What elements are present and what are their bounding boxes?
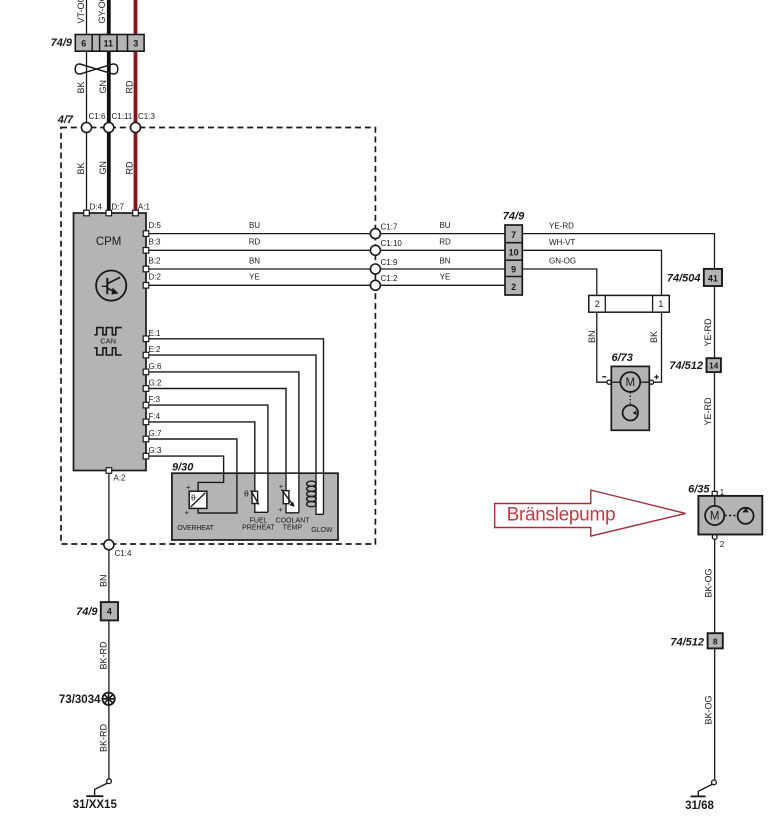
svg-text:COOLANT: COOLANT [276, 517, 311, 524]
svg-text:73/3034: 73/3034 [59, 694, 101, 706]
wire BU from CPM D:5 to C1:7 to 74/9 pin 7 [149, 221, 506, 234]
wire G:7 overheat return [149, 429, 237, 513]
svg-text:BN: BN [249, 256, 260, 265]
svg-text:31/68: 31/68 [685, 800, 714, 812]
svg-text:RD: RD [125, 80, 135, 93]
svg-text:θ: θ [191, 493, 196, 503]
svg-text:BU: BU [249, 221, 260, 230]
svg-text:2: 2 [511, 282, 516, 292]
svg-text:GN-OG: GN-OG [549, 257, 576, 266]
svg-text:C1:11: C1:11 [112, 112, 133, 121]
pin G:6 [143, 369, 149, 375]
pin E:1 [143, 336, 149, 342]
svg-text:BK-RD: BK-RD [99, 641, 109, 670]
svg-text:PREHEAT: PREHEAT [242, 525, 275, 532]
svg-text:C1:2: C1:2 [381, 274, 398, 283]
svg-text:BK: BK [649, 331, 659, 343]
svg-text:2: 2 [720, 540, 725, 549]
svg-text:C1:4: C1:4 [115, 549, 132, 558]
svg-text:YE: YE [440, 273, 451, 282]
svg-text:GN: GN [98, 80, 108, 94]
svg-text:M: M [710, 511, 720, 523]
connector node C1:3 [131, 112, 156, 133]
svg-text:D:2: D:2 [149, 273, 162, 282]
red arrow Bränslepump pointing to 6/35 [495, 490, 686, 536]
wire E:1 to glow return [149, 329, 324, 515]
wire RD from CPM B:3 to C1:10 to 74/9 pin 10 [149, 238, 506, 251]
connector 74/9 strip pins 7 10 9 2 [503, 211, 525, 296]
svg-text:6/35: 6/35 [688, 483, 710, 495]
fuel preheat sensor [242, 488, 275, 531]
svg-text:OVERHEAT: OVERHEAT [177, 525, 214, 532]
svg-text:74/9: 74/9 [51, 37, 73, 49]
svg-text:BN: BN [439, 256, 450, 265]
connector node C1:2 [370, 274, 398, 290]
svg-text:74/9: 74/9 [503, 211, 525, 223]
pin G:2 [143, 386, 149, 392]
wire BK to 6/73 plus [649, 312, 662, 382]
svg-text:BK-OG: BK-OG [703, 568, 713, 597]
connector 74/512 pin 14 [669, 358, 721, 372]
pin B:2 [143, 266, 149, 272]
svg-text:C1:3: C1:3 [138, 112, 155, 121]
svg-text:D:7: D:7 [112, 203, 125, 212]
wire BN from CPM B:2 to C1:9 to 74/9 pin 9 [149, 256, 506, 269]
svg-text:FUEL: FUEL [250, 517, 268, 524]
svg-text:C1:6: C1:6 [89, 112, 106, 121]
svg-text:BK-OG: BK-OG [703, 695, 713, 724]
svg-text:74/512: 74/512 [670, 636, 704, 648]
fuel pump 6/35 [688, 483, 762, 549]
svg-text:D:5: D:5 [149, 221, 162, 230]
svg-text:BU: BU [439, 221, 450, 230]
wire BN from C1:4 to 74/9 pin 4 [99, 550, 109, 602]
wire GN (GY-OG feed, wire 2 vertical thick) [97, 0, 109, 213]
svg-text:4/7: 4/7 [57, 114, 74, 126]
connector 74/512 pin 8 [670, 633, 722, 648]
twisted pair symbol [75, 64, 118, 74]
white channel coolant temp [285, 474, 299, 513]
svg-text:6/73: 6/73 [612, 352, 633, 364]
svg-text:CPM: CPM [96, 236, 122, 248]
wire F:4 to fuel preheat sensor [149, 412, 268, 512]
coolant temp sensor [276, 482, 311, 532]
svg-text:C1:7: C1:7 [381, 223, 398, 232]
wire BK (VT-OG feed, wire 1 vertical) [76, 0, 87, 213]
ECU 4/7 dashed boundary [57, 114, 376, 544]
svg-text:GN: GN [98, 161, 108, 175]
pin D:2 [143, 283, 149, 289]
svg-text:YE-RD: YE-RD [703, 397, 713, 426]
wire BK-RD from pin 4 to splice [99, 620, 109, 779]
wire E:2 to glow coil [149, 345, 324, 514]
svg-text:BK: BK [76, 162, 86, 174]
wire WH-VT from 74/9 pin 10 to connector pin 1 [522, 238, 661, 295]
white channel fuel preheat [254, 474, 268, 512]
svg-text:14: 14 [709, 360, 719, 370]
pin A:1 [133, 203, 151, 216]
svg-text:3: 3 [133, 39, 138, 49]
pin G:7 [143, 436, 149, 442]
svg-text:+: + [185, 508, 190, 517]
svg-text:4: 4 [107, 607, 112, 617]
svg-text:F:4: F:4 [149, 412, 161, 421]
wire YE-RD from 74/9 pin 7 to 6/35 pin 1 [522, 221, 714, 491]
pin D:5 [143, 231, 149, 237]
pin E:2 [143, 352, 149, 358]
ground 31/68 [685, 780, 716, 812]
component box 9/30 glow plug/sensor unit [172, 461, 338, 540]
connector 74/504 pin 41 [667, 269, 722, 286]
connector node C1:10 [370, 239, 402, 255]
svg-text:74/512: 74/512 [669, 360, 703, 372]
connector node C1:11 [104, 112, 133, 133]
svg-text:GLOW: GLOW [311, 527, 333, 534]
connector node C1:9 [370, 258, 398, 274]
svg-text:RD: RD [439, 238, 451, 247]
pin F:4 [143, 419, 149, 425]
connector node C1:4 [104, 540, 132, 558]
connector 74/9 pin 4 [76, 602, 118, 620]
wire BN from A:2 to C1:4 [108, 473, 110, 540]
svg-text:7: 7 [511, 230, 516, 240]
svg-text:G:7: G:7 [149, 429, 162, 438]
svg-text:M: M [626, 377, 636, 389]
connector node C1:7 [370, 223, 398, 239]
svg-text:C1:9: C1:9 [381, 258, 398, 267]
svg-text:+: + [278, 505, 283, 514]
svg-text:RD: RD [125, 161, 135, 174]
svg-text:F:3: F:3 [149, 395, 161, 404]
module CPM 4/7 [74, 213, 147, 471]
connector 74/9 top strip pins 6 11 3 [51, 35, 145, 52]
pin B:3 [143, 248, 149, 254]
svg-text:YE: YE [249, 273, 260, 282]
pin A:2 of CPM [106, 468, 126, 483]
svg-text:1: 1 [658, 299, 663, 309]
svg-text:YE-RD: YE-RD [703, 318, 713, 347]
svg-text:G:3: G:3 [149, 446, 162, 455]
svg-text:YE-RD: YE-RD [549, 221, 574, 230]
svg-text:74/504: 74/504 [667, 272, 701, 284]
svg-text:74/9: 74/9 [76, 606, 98, 618]
svg-text:+: + [186, 483, 191, 492]
svg-text:10: 10 [509, 247, 519, 257]
svg-text:θ: θ [244, 488, 249, 498]
ground 31/XX15 [73, 779, 118, 811]
svg-text:41: 41 [708, 273, 718, 283]
svg-text:BK: BK [76, 81, 86, 93]
svg-text:G:6: G:6 [149, 362, 162, 371]
wire RD (red feed, wire 3 vertical thick) [125, 0, 136, 213]
svg-text:BK-RD: BK-RD [99, 723, 109, 752]
svg-text:9: 9 [511, 265, 516, 275]
wire F:3 fuel preheat return [149, 395, 268, 512]
pin D:4 [84, 203, 103, 216]
svg-text:CAN: CAN [100, 336, 116, 345]
splice 73/3034 [59, 693, 115, 706]
svg-text:11: 11 [104, 39, 114, 49]
svg-text:VT-OG: VT-OG [76, 0, 86, 24]
svg-text:Bränslepump: Bränslepump [507, 505, 616, 526]
inline connector 2|1 [589, 295, 670, 312]
svg-text:E:1: E:1 [149, 329, 162, 338]
wire G:2 to coolant temp sensor [149, 379, 299, 513]
svg-text:A:1: A:1 [138, 203, 151, 212]
wire GN-OG from 74/9 pin 9 to connector pin 2 [522, 257, 597, 296]
svg-text:A:2: A:2 [114, 473, 127, 482]
wire YE from CPM D:2 to C1:2 to 74/9 pin 2 [149, 273, 506, 286]
svg-text:6: 6 [81, 39, 86, 49]
svg-text:E:2: E:2 [149, 345, 162, 354]
svg-text:9/30: 9/30 [172, 461, 194, 473]
svg-text:C1:10: C1:10 [381, 239, 403, 248]
wire G:3 to overheat sensor [149, 446, 224, 491]
svg-text:2: 2 [595, 299, 600, 309]
overheat sensor [177, 483, 214, 533]
white channel glow [315, 474, 324, 514]
CAN symbol in CPM [94, 328, 122, 355]
pin G:3 [143, 453, 149, 459]
svg-text:D:4: D:4 [90, 203, 103, 212]
svg-text:8: 8 [713, 636, 718, 646]
svg-text:GY-OG: GY-OG [97, 0, 107, 24]
wire G:6 coolant temp return [149, 362, 299, 513]
svg-text:31/XX15: 31/XX15 [73, 799, 118, 811]
motor 6/73 [602, 352, 658, 430]
glow coil [307, 481, 333, 534]
svg-text:RD: RD [249, 238, 261, 247]
pin D:7 [106, 203, 125, 216]
svg-text:TEMP: TEMP [283, 525, 303, 532]
svg-text:B:3: B:3 [149, 238, 162, 247]
svg-text:WH-VT: WH-VT [549, 238, 575, 247]
svg-text:B:2: B:2 [149, 256, 162, 265]
svg-text:+: + [279, 482, 284, 491]
wire BK-OG from 6/35 pin 2 to ground 31/68 [703, 539, 714, 780]
connector node C1:6 [82, 112, 106, 133]
svg-text:BN: BN [99, 574, 109, 587]
svg-text:BN: BN [587, 330, 597, 343]
wire BN to 6/73 minus [587, 312, 607, 382]
pin F:3 [143, 402, 149, 408]
svg-text:G:2: G:2 [149, 379, 162, 388]
transistor symbol in CPM [96, 271, 126, 301]
